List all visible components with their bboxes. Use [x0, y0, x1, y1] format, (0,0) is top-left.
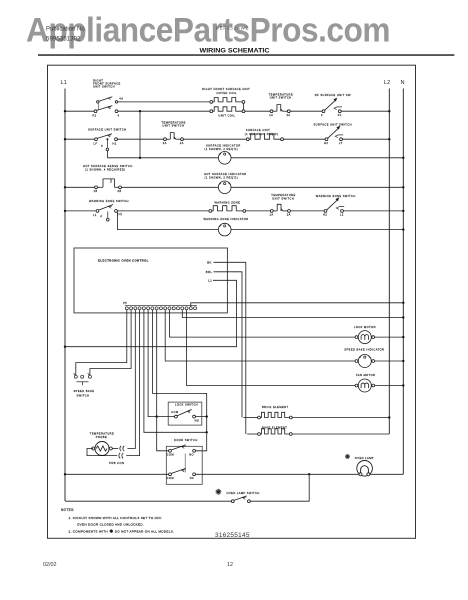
svg-text:P1: P1 — [338, 113, 342, 117]
wire L1 feed to EOC — [65, 280, 237, 346]
header rule — [38, 54, 454, 56]
wire terminal 11 to lock motor — [170, 310, 357, 337]
svg-text:COM: COM — [167, 454, 174, 457]
switch right front surface unit (DPST) — [93, 97, 124, 118]
wire hot indicator to N — [231, 186, 403, 188]
svg-text:OVEN LAMP: OVEN LAMP — [355, 456, 374, 460]
svg-text:12: 12 — [227, 562, 233, 568]
svg-text:DOOR SWITCH: DOOR SWITCH — [174, 438, 198, 442]
lock switch box — [168, 402, 202, 425]
wire terminal 14 to N lower — [182, 310, 403, 318]
wire probe return loop — [87, 449, 117, 456]
svg-text:4A: 4A — [119, 97, 123, 101]
svg-text:SPEED BAKE INDICATOR: SPEED BAKE INDICATOR — [344, 348, 384, 352]
svg-text:H1: H1 — [113, 142, 117, 146]
svg-text:FAN MOTOR: FAN MOTOR — [356, 373, 375, 377]
svg-text:2A: 2A — [287, 213, 291, 217]
schematic border — [48, 65, 416, 538]
svg-text:1A: 1A — [269, 113, 273, 117]
switch lock — [148, 409, 199, 422]
junction row A x140 — [139, 110, 141, 112]
switch door upper pole — [167, 445, 196, 457]
svg-text:LF: LF — [94, 142, 98, 146]
svg-text:(1 SHOWN, 2 REQ'D): (1 SHOWN, 2 REQ'D) — [205, 176, 239, 180]
header publication number — [46, 27, 87, 43]
svg-text:LOCK MOTOR: LOCK MOTOR — [354, 325, 376, 329]
resistor temperature probe — [92, 442, 113, 456]
svg-text:OVEN DOOR CLOSED AND UNLOCKED.: OVEN DOOR CLOSED AND UNLOCKED. — [77, 523, 144, 527]
wire BRL to broil element — [214, 272, 243, 418]
notes block — [61, 508, 174, 533]
resistor surface unit element — [246, 134, 283, 141]
svg-text:316255145: 316255145 — [215, 532, 250, 539]
svg-text:1. CIRCUIT SHOWN WITH ALL CO: 1. CIRCUIT SHOWN WITH ALL CONTROLS SET T… — [69, 516, 163, 520]
wire bake element to L2 end — [292, 433, 389, 435]
wire lock switch NO to door switch NO — [196, 417, 207, 451]
svg-text:H2: H2 — [323, 213, 327, 217]
switch temperature unit row B — [163, 133, 184, 145]
switch hot surface sense — [94, 179, 122, 193]
wire warning indicator to N — [231, 229, 403, 231]
svg-text:RF SURFACE UNIT SW: RF SURFACE UNIT SW — [315, 93, 351, 97]
wire RF switch to L2 — [341, 110, 389, 112]
svg-text:02/02: 02/02 — [43, 562, 57, 568]
wire terminal 5 to lock NO link — [144, 310, 207, 433]
junction L1 row C — [64, 186, 66, 188]
svg-text:H2: H2 — [324, 141, 328, 145]
label hot surface sense switch — [83, 164, 133, 172]
oven control EOC box — [74, 248, 227, 313]
svg-text:TEMPERATURE: TEMPERATURE — [271, 193, 295, 197]
switch surface unit row B — [94, 134, 118, 151]
svg-text:UNIT SWITCH: UNIT SWITCH — [272, 196, 294, 200]
switch temperature unit row D — [270, 204, 291, 216]
svg-text:PRB CON: PRB CON — [109, 461, 124, 465]
junction L1 EOC feed — [64, 346, 66, 348]
wire terminal 7 to lock NO upper link — [152, 310, 206, 416]
resistor bake element — [247, 429, 292, 436]
wire terminal 6 to lock switch feed — [147, 310, 149, 417]
svg-text:NO: NO — [189, 454, 194, 457]
wire L1 to hot surface sense switch — [65, 186, 95, 188]
switch surface unit right — [324, 126, 343, 145]
door switch box — [166, 446, 202, 484]
svg-text:WIRING SCHEMATIC: WIRING SCHEMATIC — [200, 48, 271, 54]
svg-text:OVEN LAMP SWITCH: OVEN LAMP SWITCH — [227, 491, 260, 495]
svg-text:1B: 1B — [94, 189, 98, 193]
svg-text:1A: 1A — [180, 141, 184, 145]
door switch mechanical link — [184, 454, 186, 473]
resistor warning zone — [209, 206, 246, 213]
label temperature unit switch row A — [269, 92, 293, 99]
svg-text:LOCK SWITCH: LOCK SWITCH — [175, 403, 198, 407]
svg-text:UNIT SWITCH: UNIT SWITCH — [270, 96, 292, 100]
junction N fan motor — [402, 384, 404, 386]
asterisk oven lamp switch — [215, 489, 221, 495]
junction lock NO link — [206, 431, 208, 433]
svg-text:WARNING ZONE SWITCH: WARNING ZONE SWITCH — [316, 194, 356, 198]
svg-text:2A: 2A — [163, 141, 167, 145]
svg-text:LT: LT — [339, 141, 343, 145]
svg-text:L1: L1 — [61, 80, 67, 86]
asterisk oven lamp — [345, 454, 350, 459]
switch oven lamp — [231, 496, 250, 503]
lamp speed bake indicator — [355, 355, 375, 368]
svg-text:ELECTRONIC OVEN CONTROL: ELECTRONIC OVEN CONTROL — [98, 259, 149, 263]
svg-text:4: 4 — [118, 113, 120, 117]
svg-text:Publication No.: Publication No. — [46, 27, 87, 33]
svg-text:RIGHT FRONT SURFACE UNIT: RIGHT FRONT SURFACE UNIT — [202, 87, 250, 91]
wire terminal 16 to N upper — [191, 303, 403, 307]
wire warning switch to N — [343, 210, 403, 212]
svg-text:L2: L2 — [384, 80, 390, 86]
svg-text:NOTES:: NOTES: — [61, 508, 75, 512]
svg-text:2B: 2B — [118, 189, 122, 193]
lamp oven lamp — [357, 461, 373, 477]
svg-text:BK: BK — [207, 260, 212, 264]
label surface unit element — [245, 128, 279, 136]
wire switch to temp switch row B — [117, 138, 163, 140]
svg-text:UNIT SWITCH: UNIT SWITCH — [163, 124, 185, 128]
junction N lower wire — [402, 316, 404, 318]
svg-text:N: N — [401, 80, 405, 86]
junction N lock motor — [402, 336, 404, 338]
resistor unit coil — [210, 107, 245, 113]
wire terminal 10 to speed bake indicator — [165, 310, 356, 361]
wire lamp switch to door row — [250, 474, 309, 501]
lamp surface indicator — [218, 152, 231, 165]
svg-text:1A: 1A — [270, 213, 274, 217]
svg-text:WARNING ZONE: WARNING ZONE — [215, 200, 241, 204]
label surface indicator — [205, 143, 241, 151]
label right front surface unit switch — [93, 79, 121, 89]
label temperature probe — [90, 431, 114, 439]
svg-text:DO NOT APPEAR ON ALL MODELS.: DO NOT APPEAR ON ALL MODELS. — [115, 529, 174, 533]
svg-text:COM: COM — [167, 477, 174, 480]
wire lock motor to N — [375, 336, 404, 338]
connector probe feed chevrons — [112, 446, 124, 451]
wire L1 to surface unit switch row B — [65, 138, 95, 140]
wire L1 corner to lamp switch — [65, 500, 231, 502]
label right front surface unit outer coil — [202, 87, 250, 95]
svg-text:SURFACE UNIT SWITCH: SURFACE UNIT SWITCH — [314, 123, 352, 127]
wire fan motor to N — [375, 385, 404, 387]
junction L2 broil — [388, 416, 390, 418]
switch warning zone right — [323, 198, 344, 217]
label temperature unit switch row B — [162, 120, 186, 127]
junction L2 row A — [388, 110, 390, 112]
svg-text:PROBE: PROBE — [96, 435, 107, 439]
connector P5 terminal strip — [125, 305, 197, 310]
svg-text:OUTER COIL: OUTER COIL — [217, 91, 237, 95]
label speed bake switch — [74, 389, 95, 397]
wire sense switch to hot indicator — [121, 186, 218, 188]
wire terminal 4 to probe return — [126, 310, 139, 456]
junction L1 row B — [64, 138, 66, 140]
svg-text:P5: P5 — [123, 303, 127, 305]
svg-text:COM: COM — [171, 411, 178, 414]
wire warning switch to warning element — [117, 210, 208, 212]
svg-text:BROIL ELEMENT: BROIL ELEMENT — [262, 405, 289, 409]
svg-text:(H): (H) — [117, 212, 122, 216]
motor fan motor — [355, 379, 375, 392]
svg-text:SURFACE UNIT: SURFACE UNIT — [246, 128, 270, 132]
wire outer coil drop — [243, 103, 245, 110]
junction indicator row x140 — [139, 157, 141, 159]
lamp warning zone indicator — [218, 223, 231, 236]
junction L2 row B — [388, 138, 390, 140]
svg-text:(1 SHOWN, 4 REQUIRED): (1 SHOWN, 4 REQUIRED) — [85, 168, 126, 172]
wire L1 to door switch — [65, 473, 169, 475]
svg-text:WARNING ZONE SWITCH: WARNING ZONE SWITCH — [89, 199, 129, 203]
svg-text:SURFACE INDICATOR: SURFACE INDICATOR — [206, 143, 241, 147]
junction L1 door row — [64, 473, 66, 475]
svg-text:2A: 2A — [287, 113, 291, 117]
svg-text:(1 SHOWN, 2 REQ'D): (1 SHOWN, 2 REQ'D) — [205, 147, 239, 151]
junction lock feed crossing — [156, 415, 158, 417]
wire surface switch to L2 — [342, 138, 389, 140]
switch temperature unit row A — [269, 105, 290, 117]
wire N bus — [402, 89, 404, 475]
svg-text:TEMPERATURE: TEMPERATURE — [90, 431, 114, 435]
junction N speed bake indicator — [402, 360, 404, 362]
wire temp switch to surface unit element — [183, 138, 246, 140]
wire P terminal to indicator row — [106, 151, 108, 158]
svg-text:SWITCH: SWITCH — [77, 393, 90, 397]
motor lock motor — [355, 331, 375, 344]
svg-text:P: P — [101, 145, 103, 148]
wire surface indicator to N — [231, 157, 403, 159]
svg-text:FEF352AWZ: FEF352AWZ — [216, 25, 249, 30]
label temperature unit switch row D — [271, 193, 295, 200]
connector probe return chevrons — [119, 453, 123, 458]
svg-text:UNIT SWITCH: UNIT SWITCH — [93, 85, 115, 89]
svg-text:L1: L1 — [93, 213, 97, 217]
svg-text:P2: P2 — [93, 113, 97, 117]
wire element to surface unit switch right — [283, 138, 325, 140]
switch RF surface unit — [321, 98, 342, 117]
wire terminal 3 to probe feed — [128, 310, 136, 449]
svg-text:P: P — [101, 216, 103, 219]
junction N warning indicator — [402, 228, 404, 230]
switch speed bake — [74, 373, 92, 385]
resistor outer coil — [210, 98, 245, 104]
wire speed bake indicator to N — [375, 360, 404, 362]
label hot surface indicator — [204, 172, 247, 180]
junction N surface indicator — [402, 157, 404, 159]
wire L1 bus — [64, 89, 66, 502]
wire temp switch to warning zone switch right — [290, 210, 324, 212]
junction N upper wire — [402, 302, 404, 304]
wire warning switch to indicator row — [118, 212, 219, 230]
junction L1 row A — [64, 110, 66, 112]
wire L1 to warning zone switch — [65, 210, 96, 212]
wire switch to coils row A — [118, 110, 210, 112]
junction lamp switch tie — [308, 473, 310, 475]
switch warning zone left — [93, 205, 122, 222]
resistor broil element — [243, 412, 292, 419]
wire temp switch to RF switch row A — [290, 110, 322, 112]
svg-text:L1: L1 — [208, 278, 212, 282]
wire terminal 8 to door switch COM — [157, 310, 169, 451]
wire broil element to L2 — [292, 417, 389, 419]
svg-text:2. COMPONENTS WITH: 2. COMPONENTS WITH — [69, 529, 108, 533]
junction N row D — [402, 210, 404, 212]
svg-text:2: 2 — [321, 113, 323, 117]
svg-text:SURFACE UNIT SWITCH: SURFACE UNIT SWITCH — [88, 127, 126, 131]
junction L1 row D — [64, 210, 66, 212]
svg-text:HOT SURFACE SENSE SWITCH: HOT SURFACE SENSE SWITCH — [83, 164, 133, 168]
wire door switch to oven lamp — [196, 473, 404, 475]
lamp hot surface indicator — [218, 181, 231, 194]
wire L1 to right-front switch — [65, 110, 94, 112]
svg-text:SPEED BAKE: SPEED BAKE — [74, 389, 95, 393]
wire upper pole to outer coil — [118, 101, 210, 103]
wire coils to temperature switch row A — [245, 110, 271, 112]
wire BK to bake element — [214, 262, 246, 434]
switch door lower pole — [167, 468, 196, 480]
wire terminal 2 to speed bake switch right — [90, 310, 131, 375]
svg-text:5995351302: 5995351302 — [46, 36, 81, 43]
wire terminal 15 to fan motor — [187, 310, 357, 386]
junction N hot surface indicator — [402, 186, 404, 188]
svg-text:WARNING ZONE INDICATOR: WARNING ZONE INDICATOR — [204, 217, 249, 221]
svg-text:NC: NC — [190, 477, 195, 480]
wire row A to indicator row — [139, 112, 141, 158]
svg-text:NO: NO — [195, 420, 200, 423]
svg-text:HOT SURFACE INDICATOR: HOT SURFACE INDICATOR — [204, 172, 247, 176]
junction lock NO node — [206, 415, 208, 417]
svg-text:UNIT COIL: UNIT COIL — [219, 113, 236, 117]
wire warning element to temp switch — [246, 210, 271, 212]
svg-text:BRL: BRL — [206, 270, 213, 274]
wire terminal 1 to speed bake switch left — [76, 310, 127, 375]
svg-text:L2: L2 — [340, 213, 344, 217]
wire L2 bus — [388, 89, 390, 435]
